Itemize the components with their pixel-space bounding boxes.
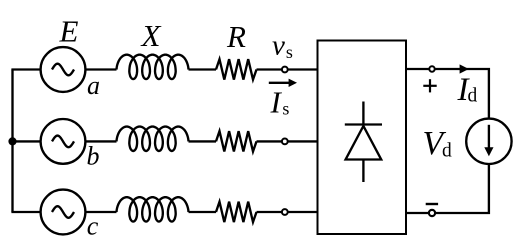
wire rectifier output top	[406, 69, 489, 119]
resistor R (phase c)	[216, 202, 257, 222]
wire inductor to resistor (phase c)	[189, 211, 217, 213]
node terminal (phase a) open circle	[282, 67, 288, 73]
rectifier box U1	[318, 41, 407, 235]
svg-text:X: X	[140, 18, 162, 53]
wire resistor to rectifier box (phase c)	[257, 211, 318, 213]
wire current source to bottom rail	[406, 164, 489, 213]
wire resistor to rectifier box (phase b)	[257, 140, 318, 142]
arrowhead Id direction	[460, 64, 469, 73]
node terminal (phase b) open circle	[282, 139, 288, 145]
svg-text:R: R	[226, 19, 246, 54]
source Eb (AC source circle)	[41, 119, 86, 164]
wire resistor to rectifier box (phase a)	[257, 68, 318, 70]
svg-text:Vd: Vd	[423, 125, 452, 162]
svg-text:vs: vs	[272, 30, 293, 63]
node output - terminal	[429, 210, 435, 216]
wire inductor to resistor (phase b)	[189, 140, 217, 142]
inductor X (phase b)	[117, 127, 189, 151]
wire left bus vertical	[11, 70, 13, 213]
arrow Is current direction	[269, 79, 297, 87]
wire bus to source Ec	[11, 211, 40, 213]
wire inductor to resistor (phase a)	[189, 68, 217, 70]
svg-text:b: b	[87, 142, 100, 171]
source Ec (AC source circle)	[41, 190, 86, 235]
svg-text:c: c	[87, 212, 99, 241]
source Ea (AC source circle)	[41, 47, 86, 92]
wire bus to source Ea	[11, 68, 40, 70]
wire bus to source Eb	[11, 140, 40, 142]
inductor X (phase a)	[117, 55, 189, 79]
wire source to inductor (phase c)	[85, 211, 116, 213]
svg-text:a: a	[87, 71, 100, 100]
inductor X (phase c)	[117, 197, 189, 221]
node terminal (phase c) open circle	[282, 209, 288, 215]
resistor R (phase a)	[216, 59, 257, 79]
svg-text:E: E	[59, 14, 79, 49]
label plus sign	[423, 79, 436, 92]
resistor R (phase b)	[216, 131, 257, 151]
node junction dot on bus at phase b	[8, 137, 16, 145]
node output + terminal	[429, 66, 434, 71]
label minus sign	[426, 203, 438, 205]
diode D (inside rectifier box)	[345, 102, 382, 183]
wire source to inductor (phase a)	[85, 68, 116, 70]
svg-text:Id: Id	[457, 72, 478, 108]
wire source to inductor (phase b)	[85, 140, 116, 142]
current source Id (circle with down arrow)	[466, 119, 511, 164]
svg-text:Is: Is	[270, 85, 290, 120]
